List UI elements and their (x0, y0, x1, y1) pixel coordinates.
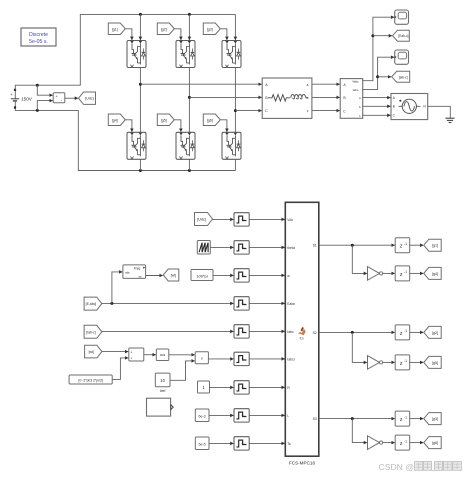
sum block (129, 348, 144, 361)
NOT gate for [g5] (368, 356, 380, 370)
rate transition block 3 (234, 269, 249, 282)
scope 1 (395, 10, 409, 24)
svg-text:[Iab-c]: [Iab-c] (399, 75, 408, 79)
svg-text:z: z (400, 331, 403, 337)
svg-text:Iref: Iref (160, 388, 167, 393)
wire RL a to measurement A (312, 83, 340, 85)
NOT gate for [g4] (368, 267, 380, 281)
unit delay z-1 for [g5] (395, 355, 410, 370)
wire IGBT Q6 emitter to bottom bus (234, 159, 236, 170)
ground (445, 117, 454, 119)
three-phase series RL branch (262, 78, 312, 118)
svg-text:100*pi: 100*pi (196, 273, 207, 278)
constant 6e-3 (195, 409, 209, 422)
constant 10 Iref (155, 373, 170, 387)
svg-text:S2: S2 (313, 331, 317, 335)
svg-text:Iabc: Iabc (287, 330, 294, 334)
rate transition block 9 (234, 437, 249, 450)
svg-text:S3: S3 (313, 417, 317, 421)
constant 5e-5 (195, 437, 209, 450)
svg-text:-1: -1 (404, 415, 407, 419)
svg-text:[g3]: [g3] (432, 417, 438, 421)
wire delay to goto [g6] (410, 442, 424, 444)
svg-text:theta: theta (287, 246, 295, 250)
node phase B (188, 96, 191, 99)
wire 6e-3 to rate transition 8 (209, 414, 233, 416)
wire sawtooth to rate transition 2 (210, 246, 233, 248)
wire RL b to measurement B (312, 96, 340, 98)
wire [g1] to gate (125, 29, 132, 40)
svg-text:L: L (287, 414, 289, 418)
from tag [E,abc] (84, 297, 102, 310)
wire rate transition 1 to controller (249, 218, 284, 220)
rate transition block 8 (234, 409, 249, 422)
svg-text:Freq: Freq (134, 267, 141, 271)
constant 1 (198, 381, 210, 393)
svg-text:z: z (400, 417, 403, 423)
wire delay to goto [g2] (410, 331, 424, 333)
svg-text:wt: wt (139, 274, 142, 278)
wire IGBT Q4 emitter to bottom bus (139, 159, 141, 170)
wire rate transition 7 to controller (249, 386, 284, 388)
three-phase V-I measurement block (340, 79, 363, 119)
wire phase A to RL branch (140, 83, 261, 85)
wire IGBT Q3 emitter to phase node (234, 68, 236, 133)
wire top bus to IGBT2 collector (188, 14, 190, 40)
repeating sequence (sawtooth) block (197, 241, 210, 255)
svg-text:[g6]: [g6] (432, 441, 438, 445)
IGBT Q2 (176, 41, 195, 68)
from tag [g2] (157, 23, 174, 35)
svg-text:[g4]: [g4] (432, 272, 438, 276)
wire [g5] to gate (174, 120, 181, 132)
node output branch [g1] (351, 244, 354, 247)
rate transition block 5 (234, 325, 249, 338)
goto tag [Eab-c] (393, 30, 410, 41)
wire rate transition 9 to controller (249, 442, 284, 444)
wire branch to NOT gate [g4] (352, 245, 367, 273)
svg-text:[Udc]: [Udc] (85, 97, 93, 101)
wire DC- to voltmeter - (37, 101, 52, 111)
rate transition block 1 (234, 213, 249, 226)
svg-text:[Eab-c]: [Eab-c] (398, 34, 408, 38)
svg-text:[Iab-c]: [Iab-c] (86, 330, 95, 334)
svg-text:[g5]: [g5] (161, 118, 167, 122)
node Eabc branch (110, 302, 113, 305)
MATLAB function controller block FCS-MPC16 (285, 202, 319, 456)
wire Iabc to Iab-c goto (378, 76, 392, 78)
svg-text:S1: S1 (313, 244, 317, 248)
svg-text:+: + (10, 92, 13, 97)
wire branch to NOT gate [g6] (352, 419, 367, 443)
svg-text:fcn: fcn (300, 336, 304, 340)
wire top bus to IGBT3 collector (234, 14, 236, 40)
node top bus leg2 (188, 13, 191, 16)
wire phase C to RL branch (235, 110, 261, 112)
svg-text:[g3]: [g3] (207, 27, 213, 31)
scope 2 (395, 50, 409, 64)
wire rate transition 8 to controller (249, 414, 284, 416)
goto tag [g4] (424, 267, 441, 279)
from tag [g1] (108, 23, 125, 35)
svg-text:-1: -1 (404, 359, 407, 363)
powergui block Discrete 5e-05 s (21, 28, 56, 46)
wire wt to sum (102, 351, 128, 353)
wire delay to goto [g4] (410, 272, 424, 274)
svg-text:FCS-MPC16: FCS-MPC16 (289, 461, 315, 466)
wire phase B to RL branch (189, 96, 261, 98)
IGBT Q5 (176, 132, 195, 159)
from tag [Iab-c] control (84, 325, 102, 338)
wire measurement a to source A (363, 97, 391, 99)
unit delay z-1 for [g1] (395, 238, 410, 253)
node Vabc branch (371, 34, 374, 37)
goto tag [Iab-c] (392, 71, 410, 82)
wire product to rate transition 6 (208, 358, 233, 360)
svg-text:5e-05 s.: 5e-05 s. (29, 39, 48, 45)
node Iabc branch (376, 75, 379, 78)
product block (195, 352, 208, 364)
node bottom bus leg2 (188, 169, 191, 172)
svg-text:[Udc]: [Udc] (197, 218, 206, 222)
wire rate transition 4 to controller (249, 302, 284, 304)
wire Iref to product (170, 361, 195, 380)
node output branch [g3] (351, 417, 354, 420)
wire measurement b to source B (363, 105, 391, 107)
wire IGBT Q1 emitter to phase node (139, 68, 141, 133)
svg-text:[g1]: [g1] (432, 244, 438, 248)
node phase C (234, 109, 237, 112)
goto tag [Udc] (79, 92, 96, 104)
goto tag [g2] (424, 326, 441, 338)
svg-text:+: + (131, 357, 133, 361)
wire voltmeter to Udc goto (65, 97, 78, 99)
svg-text:Ts: Ts (287, 442, 291, 446)
wire DC+ to top bus (15, 14, 235, 89)
svg-text:x: x (201, 357, 203, 361)
wire [g4] to gate (125, 120, 132, 132)
wire RL c to measurement C (312, 110, 340, 112)
wire top bus to IGBT1 collector (139, 14, 141, 40)
cos block (156, 349, 169, 361)
from tag [g5] (157, 114, 174, 126)
rate transition block 7 (234, 381, 249, 394)
wire controller output to delay [g2] (319, 331, 395, 333)
wire rate transition 2 to controller (249, 246, 284, 248)
svg-text:[0 -2*pi/3 2*pi/3]: [0 -2*pi/3 2*pi/3] (79, 379, 103, 383)
svg-text:[g2]: [g2] (432, 331, 438, 335)
svg-text:z: z (400, 441, 403, 447)
node DC- tap (36, 109, 39, 112)
wire rate transition 3 to controller (249, 274, 284, 276)
wire sum to cos (144, 354, 156, 356)
wire controller output to delay [g3] (319, 418, 395, 420)
node top bus leg1 (139, 13, 142, 16)
svg-text:-1: -1 (404, 329, 407, 333)
DC voltage source 150V (14, 90, 16, 99)
from tag [g3] (203, 23, 220, 35)
IGBT Q6 (222, 132, 241, 159)
wire NOT to delay [g6] (383, 442, 395, 444)
wire Iabc to scope2 (363, 57, 394, 89)
wire 5e-5 to rate transition 9 (209, 442, 233, 444)
NOT gate for [g6] (368, 436, 380, 450)
node phase A (139, 83, 142, 86)
unit delay z-1 for [g3] (395, 411, 410, 426)
svg-text:z: z (400, 272, 403, 278)
rate transition block 6 (234, 352, 249, 365)
svg-text:Iabc: Iabc (353, 88, 359, 92)
wire delay to goto [g3] (410, 418, 424, 420)
svg-text:[wt]: [wt] (171, 274, 176, 278)
rate transition block 4 (234, 297, 249, 310)
svg-text:[g4]: [g4] (112, 118, 118, 122)
wire source N to ground (428, 106, 451, 118)
svg-text:10: 10 (160, 378, 165, 383)
svg-text:[g6]: [g6] (207, 118, 213, 122)
from tag [g6] (203, 114, 220, 126)
empty subsystem (147, 398, 171, 416)
wire Udc to rate transition 1 (213, 218, 234, 220)
unit delay z-1 for [g6] (395, 435, 410, 450)
wire rate transition 6 to controller (249, 358, 284, 360)
wire measurement c to source C (363, 114, 391, 116)
svg-text:Vdc: Vdc (287, 218, 293, 222)
svg-text:[E,abc]: [E,abc] (86, 302, 97, 306)
wire controller output to delay [g1] (319, 244, 395, 246)
wire Eabc branch to Freq block (112, 272, 122, 304)
unit delay z-1 for [g4] (395, 266, 410, 281)
svg-text:[g1]: [g1] (112, 27, 118, 31)
wire DC- to bottom bus (15, 109, 235, 171)
svg-text:Discrete: Discrete (29, 32, 48, 38)
wire delay to goto [g1] (410, 244, 424, 246)
svg-text:Vabc: Vabc (352, 79, 359, 83)
wire rate transition 5 to controller (249, 330, 284, 332)
frequency measurement block Freq/abc/wt (123, 265, 146, 279)
wire DC+ to voltmeter + (37, 85, 52, 95)
wire Eabc to rate transition 4 (102, 302, 234, 304)
wire Iabc to rate transition 5 (102, 330, 234, 332)
node output branch [g2] (351, 331, 354, 334)
wire IGBT Q5 emitter to bottom bus (188, 159, 190, 170)
wire Freq wt to wt goto (146, 275, 163, 277)
IGBT Q4 (127, 132, 146, 159)
svg-text:abc: abc (125, 270, 130, 274)
goto tag [g6] (424, 437, 441, 449)
wire [g3] to gate (220, 29, 227, 40)
svg-text:a: a (307, 83, 309, 87)
wire [g2] to gate (174, 29, 181, 40)
from tag [Udc] control (195, 213, 213, 226)
svg-text:5e-5: 5e-5 (198, 442, 205, 446)
constant 100*pi (191, 270, 213, 281)
rate transition block 2 (234, 241, 249, 254)
wire 100*pi to rate transition 3 (213, 274, 233, 276)
wire [g6] to gate (220, 120, 227, 132)
svg-text:-1: -1 (404, 270, 407, 274)
svg-text:[wt]: [wt] (89, 350, 94, 354)
wire Vabc to scope1 (363, 17, 394, 80)
svg-text:-1: -1 (404, 439, 407, 443)
svg-text:cos: cos (160, 353, 166, 357)
goto tag [g1] (424, 239, 441, 251)
wire NOT to delay [g5] (383, 361, 395, 363)
wire phase constant to sum (112, 358, 128, 380)
svg-text:6e-3: 6e-3 (198, 414, 205, 418)
unit delay z-1 for [g2] (395, 325, 410, 340)
from tag [wt] source (85, 345, 102, 358)
wire branch to NOT gate [g5] (352, 332, 367, 362)
node DC+ tap (36, 84, 39, 87)
svg-text:z: z (400, 361, 403, 367)
wire delay to goto [g5] (410, 361, 424, 363)
svg-text:B: B (393, 105, 395, 109)
MATLAB fcn icon (298, 329, 306, 336)
wire NOT to delay [g4] (383, 272, 395, 274)
IGBT Q3 (222, 41, 241, 68)
svg-text:+: + (131, 350, 133, 354)
constant [0 -2*pi/3 2*pi/3] (69, 375, 112, 384)
node bottom bus leg1 (139, 169, 142, 172)
goto tag [wt] (163, 269, 179, 281)
svg-text:[g5]: [g5] (432, 361, 438, 365)
svg-text:150V: 150V (21, 96, 33, 101)
svg-text:Iabcr: Iabcr (287, 357, 295, 361)
wire cos to product (169, 354, 195, 356)
IGBT Q1 (127, 41, 146, 68)
svg-text:CSDN @: CSDN @ (379, 462, 414, 472)
svg-text:-1: -1 (404, 242, 407, 246)
voltage measurement block (53, 93, 65, 103)
svg-text:[g2]: [g2] (161, 27, 167, 31)
wire constant 1 to rate transition 7 (210, 386, 234, 388)
goto tag [g3] (424, 413, 441, 425)
goto tag [g5] (424, 356, 441, 368)
from tag [g4] (108, 114, 125, 126)
wire IGBT Q2 emitter to phase node (188, 68, 190, 133)
three-phase programmable source (391, 94, 428, 120)
wire Vabc to Eab-c goto (373, 35, 392, 37)
svg-text:Eabc: Eabc (287, 302, 295, 306)
svg-text:z: z (400, 244, 403, 250)
